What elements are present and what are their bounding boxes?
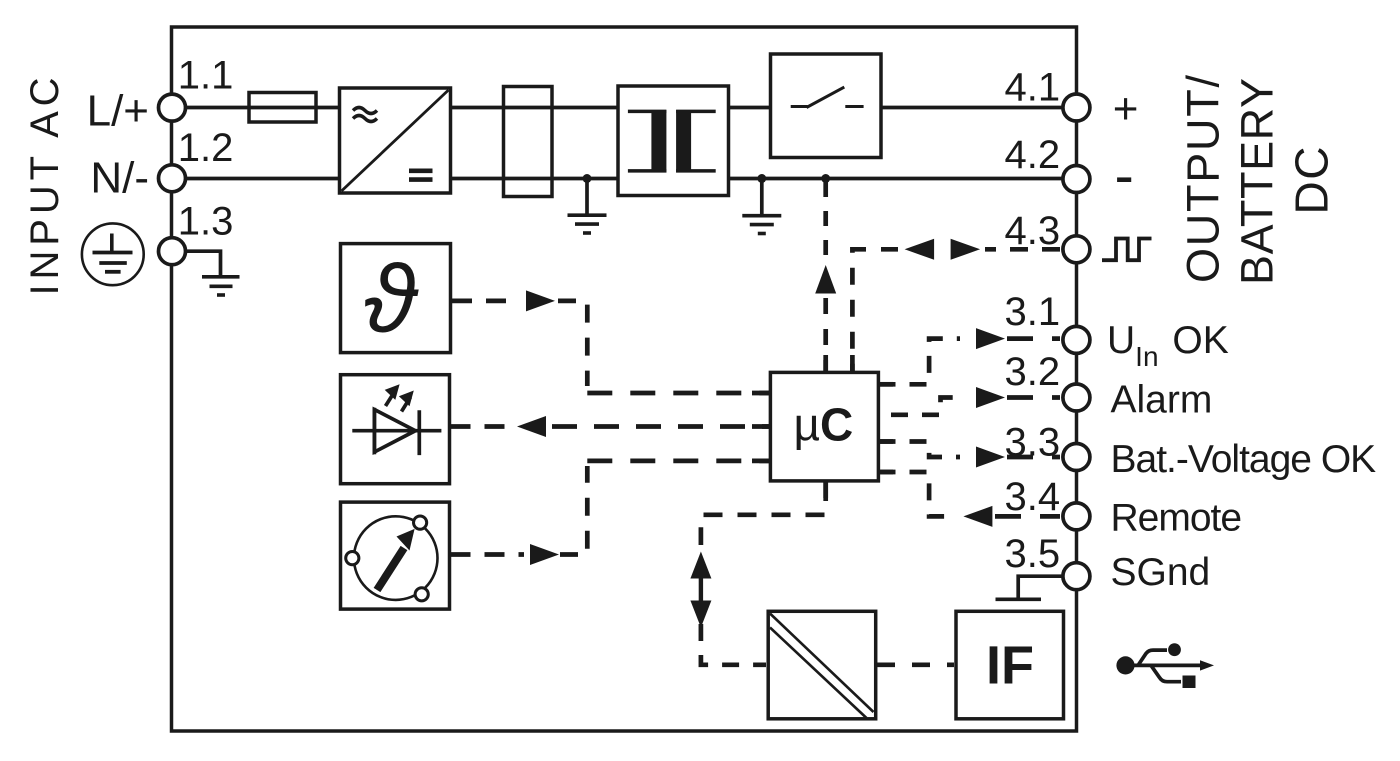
svg-text:-: - (1115, 144, 1134, 209)
svg-text:BATTERY: BATTERY (1232, 77, 1283, 285)
to 3.4 (879, 472, 959, 516)
svg-text:1.2: 1.2 (178, 126, 234, 170)
SGnd symbol at 3.5 (996, 576, 1064, 599)
terminal 4.1 (1063, 94, 1090, 121)
svg-text:3.5: 3.5 (1005, 532, 1061, 576)
svg-text:ϑ: ϑ (364, 246, 420, 353)
dashed line isolation to IF (877, 662, 954, 667)
svg-text:Bat.-Voltage OK: Bat.-Voltage OK (1111, 438, 1377, 481)
svg-text:4.1: 4.1 (1005, 66, 1061, 110)
up arrowhead of vertical double arrow (690, 552, 711, 579)
terminal 4.2 (1063, 166, 1090, 193)
down arrowhead of vertical double arrow (690, 601, 711, 628)
dashed line: uC to LED (451, 424, 771, 429)
up arrow to uC (815, 265, 836, 294)
potentiometer / rotary knob box (341, 502, 450, 609)
svg-text:+: + (1113, 85, 1139, 134)
uC right-side dashed lines to terminals 3.1-3.4 (879, 339, 1061, 517)
svg-text:SGnd: SGnd (1111, 551, 1211, 594)
svg-text:INPUT AC: INPUT AC (23, 73, 67, 296)
protective earth circle symbol (82, 223, 144, 285)
to 3.3 (879, 442, 961, 458)
terminal 3.2 (1063, 384, 1090, 411)
wire N/- bottom (185, 177, 1064, 181)
arrow to terminal 3.3 (976, 447, 1005, 468)
temperature sensor box (341, 244, 451, 353)
arrow on knob line (530, 544, 559, 565)
svg-text:L/+: L/+ (87, 87, 149, 136)
ground junction at transformer output (742, 174, 781, 234)
terminal 4.3 (1063, 236, 1090, 263)
svg-text:3.4: 3.4 (1005, 475, 1061, 519)
svg-text:µC: µC (794, 399, 854, 451)
left arrow on 4.3 line (905, 239, 935, 260)
AC/DC converter (340, 88, 451, 193)
ground junction at filter output (568, 174, 607, 233)
dashed line: terminal 4.3 to uC top (852, 249, 1060, 371)
arrow on temp line (526, 290, 555, 311)
arrow on LED line (pointing left) (517, 416, 546, 437)
svg-text:3.3: 3.3 (1005, 420, 1061, 464)
svg-text:IF: IF (986, 636, 1034, 696)
terminal 3.5 (1063, 563, 1090, 590)
svg-text:N/-: N/- (90, 154, 149, 203)
terminal 1.3 ground (186, 251, 240, 295)
dashed line: battery line to uC (with up arrow) (823, 182, 828, 371)
svg-text:3.2: 3.2 (1005, 350, 1061, 394)
terminal 3.1 (1063, 326, 1090, 353)
enclosure outline (172, 27, 1077, 731)
dashed line: temp sensor to uC (452, 301, 770, 393)
terminal 1.1 (159, 94, 186, 121)
to 3.1 (879, 339, 961, 385)
svg-text:1.3: 1.3 (178, 200, 234, 244)
svg-text:4.3: 4.3 (1005, 209, 1061, 253)
terminal 1.3 (159, 238, 186, 265)
arrow to terminal 3.2 (976, 387, 1005, 408)
arrow to terminal 3.1 (976, 328, 1005, 349)
svg-text:DC: DC (1286, 145, 1338, 214)
square wave symbol at 4.3 (1102, 239, 1152, 261)
dashed line: knob to uC (451, 461, 771, 555)
terminal 1.2 (159, 165, 186, 192)
svg-text:OUTPUT/: OUTPUT/ (1178, 73, 1229, 283)
right arrow on 4.3 line (951, 239, 981, 260)
transformer T1 (618, 86, 729, 196)
EMC filter (504, 87, 553, 197)
svg-text:3.1: 3.1 (1005, 290, 1061, 334)
terminal 3.4 (1063, 503, 1090, 530)
uC bottom to interface dashed path with vertical double arrow (701, 482, 826, 665)
fuse F1 (249, 93, 316, 123)
arrow from terminal 3.4 (pointing left) (963, 506, 992, 527)
interface IF box (956, 611, 1064, 719)
svg-text:Remote: Remote (1111, 497, 1242, 540)
isolation barrier box (768, 611, 876, 719)
to 3.2 (891, 398, 960, 415)
USB symbol (1116, 643, 1214, 688)
microcontroller uC box (752, 355, 893, 498)
svg-text:Alarm: Alarm (1111, 379, 1213, 422)
svg-text:4.2: 4.2 (1005, 133, 1061, 177)
wire L/+ top (185, 106, 1064, 110)
LED box (341, 375, 450, 484)
svg-text:1.1: 1.1 (178, 53, 234, 97)
terminal 3.3 (1063, 444, 1090, 471)
switch S1 (771, 54, 882, 158)
junction on battery line (821, 174, 830, 183)
svg-text:UIn OK: UIn OK (1107, 319, 1229, 372)
